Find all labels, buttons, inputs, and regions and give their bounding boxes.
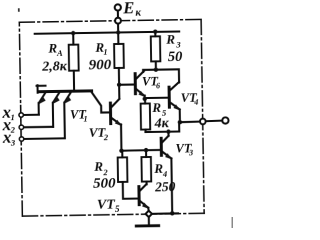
svg-text:5: 5 (115, 204, 120, 214)
svg-text:250: 250 (154, 179, 176, 194)
svg-text:VT: VT (97, 198, 117, 213)
svg-text:R: R (165, 32, 175, 47)
svg-text:2,8к: 2,8к (41, 59, 68, 74)
svg-text:2: 2 (103, 132, 109, 142)
svg-text:900: 900 (89, 57, 112, 73)
svg-text:4к: 4к (154, 116, 170, 131)
svg-text:4: 4 (193, 98, 198, 107)
svg-text:6: 6 (156, 81, 160, 90)
svg-text:R: R (93, 159, 103, 174)
svg-text:к: к (135, 7, 141, 19)
svg-text:А: А (56, 48, 63, 58)
svg-text:3: 3 (188, 148, 193, 157)
svg-text:E: E (122, 0, 134, 17)
svg-text:50: 50 (168, 49, 183, 65)
svg-text:1: 1 (83, 114, 87, 123)
svg-text:1: 1 (10, 112, 14, 122)
svg-text:500: 500 (93, 176, 116, 192)
svg-text:R: R (151, 100, 161, 115)
svg-text:4: 4 (162, 169, 167, 179)
svg-text:3: 3 (10, 138, 16, 148)
svg-text:1: 1 (103, 48, 107, 57)
